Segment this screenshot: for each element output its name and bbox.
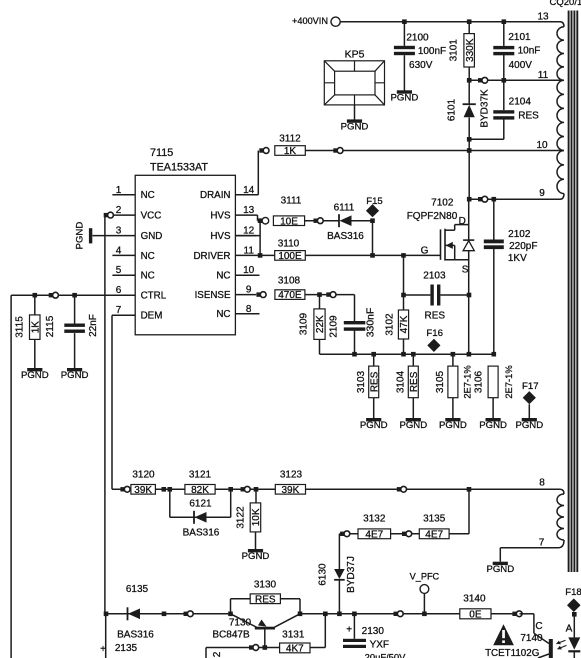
svg-text:RES: RES (369, 371, 380, 392)
svg-text:2115: 2115 (45, 315, 56, 337)
svg-text:3110: 3110 (278, 238, 300, 249)
svg-text:DEM: DEM (141, 311, 163, 322)
svg-text:PGND: PGND (360, 420, 388, 431)
ground PGND under 2100 (397, 90, 412, 93)
svg-text:BC847B: BC847B (212, 630, 250, 641)
svg-text:BYD37K: BYD37K (479, 89, 490, 128)
capacitor 2104 RES (503, 80, 505, 110)
svg-text:100E: 100E (278, 251, 302, 262)
svg-text:3112: 3112 (279, 134, 301, 145)
phototransistor of 7140 (534, 633, 549, 643)
capacitor 2102 220pF 1KV (493, 199, 495, 239)
svg-text:6111: 6111 (334, 202, 355, 213)
optocoupler 7140 TCET1102G (493, 624, 514, 645)
svg-text:22nF: 22nF (88, 314, 99, 337)
svg-text:PGND: PGND (242, 551, 270, 562)
svg-text:2: 2 (212, 651, 223, 657)
body diode of 7102 (463, 239, 474, 241)
capacitor 2103 RES gate-source (401, 293, 406, 298)
svg-text:6130: 6130 (318, 563, 329, 586)
transformer core (568, 11, 570, 573)
svg-text:RES: RES (425, 310, 446, 321)
svg-text:CTRL: CTRL (141, 291, 167, 302)
svg-text:3122: 3122 (235, 506, 246, 529)
capacitor 2101 10nF 400V (503, 22, 505, 46)
svg-text:D: D (459, 216, 466, 227)
svg-text:2103: 2103 (423, 270, 446, 281)
svg-text:V_PFC: V_PFC (410, 571, 440, 581)
ground PGND 3115 (27, 368, 42, 371)
ground PGND pin 7 (493, 562, 508, 565)
svg-text:10E: 10E (280, 216, 298, 227)
svg-text:3105: 3105 (435, 370, 446, 393)
ground PGND 3122 (248, 549, 263, 552)
svg-text:PGND: PGND (61, 370, 89, 381)
svg-text:C: C (535, 621, 542, 632)
ground PGND pin3 rotated (93, 235, 136, 237)
wire 1K to pin10 line (305, 150, 469, 152)
wire bottom V_PFC row (106, 613, 231, 615)
svg-text:3101: 3101 (449, 39, 460, 62)
svg-text:2104: 2104 (509, 97, 532, 108)
svg-text:39K: 39K (282, 485, 300, 496)
svg-text:PGND: PGND (399, 420, 427, 431)
ground PGND 3105 (445, 418, 460, 421)
wire +400V rail (340, 21, 556, 23)
svg-text:YXF: YXF (370, 640, 389, 651)
capacitor 2130 YXF electrolytic (352, 612, 357, 617)
resistor 3101 330K (468, 22, 470, 34)
svg-text:RES: RES (518, 111, 539, 122)
svg-text:VCC: VCC (141, 211, 162, 222)
svg-text:1K: 1K (284, 146, 297, 157)
svg-text:8: 8 (539, 478, 545, 489)
svg-text:3130: 3130 (254, 579, 277, 590)
wire to pin 8 (306, 488, 470, 490)
capacitor 2100 100nF 630V (403, 22, 405, 46)
wire left column (10, 295, 12, 658)
wire pin14 DRAIN to 3112 (235, 194, 258, 196)
svg-text:1KV: 1KV (508, 253, 527, 264)
wire pin7 DEM (112, 314, 135, 316)
svg-text:2E7-1%: 2E7-1% (461, 365, 472, 398)
diode 6130 BYD37J (338, 534, 340, 569)
svg-text:NC: NC (141, 190, 155, 201)
svg-text:630V: 630V (409, 60, 433, 71)
svg-text:FQPF2N80: FQPF2N80 (407, 211, 458, 222)
svg-text:PGND: PGND (74, 222, 85, 250)
svg-text:F17: F17 (522, 381, 539, 392)
svg-text:G: G (421, 245, 429, 256)
svg-text:DRAIN: DRAIN (200, 190, 230, 201)
svg-text:3109: 3109 (299, 312, 310, 335)
svg-text:470E: 470E (278, 290, 302, 301)
svg-text:3111: 3111 (281, 195, 302, 206)
svg-text:2101: 2101 (508, 32, 531, 43)
svg-text:RES: RES (255, 594, 276, 605)
svg-text:PGND: PGND (479, 420, 507, 431)
svg-text:3103: 3103 (356, 370, 367, 393)
svg-text:A: A (566, 624, 573, 635)
ground PGND 3103 (366, 418, 381, 421)
svg-text:2102: 2102 (508, 229, 531, 240)
ground PGND under KP5 (347, 119, 362, 122)
LED of 7140 (573, 612, 575, 637)
svg-text:1K: 1K (30, 321, 41, 334)
svg-text:ISENSE: ISENSE (195, 290, 231, 301)
svg-text:3120: 3120 (132, 470, 155, 481)
wire pin13 HVS jog (235, 214, 257, 216)
wire 10E to diode (305, 220, 339, 222)
svg-text:330K: 330K (465, 38, 476, 62)
svg-text:TCET1102G: TCET1102G (485, 648, 539, 658)
svg-text:2135: 2135 (115, 643, 138, 654)
svg-text:RES: RES (409, 371, 420, 392)
wire demag row (112, 488, 132, 490)
ground PGND 3104 (406, 418, 421, 421)
svg-text:3140: 3140 (463, 594, 486, 605)
wire gate drive (305, 254, 440, 256)
wire pin6 CTRL (11, 294, 135, 296)
svg-text:HVS: HVS (210, 211, 231, 222)
svg-text:3115: 3115 (15, 316, 26, 338)
svg-text:BAS316: BAS316 (117, 630, 154, 641)
wire base row (206, 647, 280, 649)
svg-text:3121: 3121 (189, 470, 212, 481)
svg-text:82K: 82K (191, 485, 209, 496)
wire drain node row (467, 197, 472, 202)
svg-text:11: 11 (538, 70, 549, 81)
svg-text:3108: 3108 (278, 275, 301, 286)
svg-text:NC: NC (141, 271, 155, 282)
svg-text:6101: 6101 (446, 98, 457, 121)
svg-text:3132: 3132 (363, 513, 386, 524)
svg-text:7140: 7140 (520, 633, 543, 644)
wire down to 2109 (354, 295, 356, 321)
svg-text:2E7-1%: 2E7-1% (503, 365, 514, 398)
svg-text:10nF: 10nF (518, 46, 541, 57)
svg-text:GND: GND (141, 231, 163, 242)
svg-text:PGND: PGND (515, 420, 543, 431)
svg-text:+: + (346, 624, 352, 635)
svg-text:7115: 7115 (150, 147, 173, 159)
svg-text:+400VIN: +400VIN (292, 16, 328, 26)
wire to optocoupler collector (520, 613, 534, 615)
svg-text:3104: 3104 (396, 370, 407, 393)
svg-text:3135: 3135 (423, 513, 446, 524)
svg-text:39K: 39K (134, 485, 152, 496)
svg-text:7: 7 (539, 538, 545, 549)
svg-text:PGND: PGND (21, 370, 49, 381)
node HVS junction vertical (258, 218, 263, 223)
svg-text:NC: NC (141, 251, 155, 262)
svg-text:9: 9 (539, 188, 545, 199)
svg-text:PGND: PGND (439, 420, 467, 431)
svg-text:4K7: 4K7 (286, 644, 304, 655)
wire pin9 ISENSE (235, 294, 256, 296)
svg-text:F16: F16 (426, 328, 443, 339)
wire pin12 HVS stub (235, 235, 256, 237)
wire pin7 to ground (499, 548, 501, 562)
svg-text:13: 13 (537, 11, 549, 22)
svg-text:330nF: 330nF (366, 308, 377, 337)
ground PGND 2115 (67, 368, 82, 371)
wire 4E7 row (339, 533, 469, 535)
svg-text:TEA1533AT: TEA1533AT (150, 162, 208, 174)
wire VCC column down (104, 215, 106, 614)
diode 6101 BYD37K (468, 80, 470, 104)
svg-text:S: S (462, 265, 469, 276)
svg-text:4E7: 4E7 (365, 529, 383, 540)
svg-text:2130: 2130 (362, 626, 385, 637)
svg-text:BAS316: BAS316 (183, 527, 220, 538)
svg-text:0E: 0E (469, 609, 482, 620)
svg-text:22K: 22K (315, 315, 326, 333)
light arrows (557, 640, 566, 644)
svg-text:400V: 400V (509, 60, 533, 71)
svg-text:PGND: PGND (341, 122, 369, 133)
svg-text:3123: 3123 (280, 470, 303, 481)
svg-text:6121: 6121 (189, 498, 212, 509)
wire 2104 bottom to drain column (469, 138, 504, 140)
ground PGND F17 (522, 418, 537, 421)
svg-text:KP5: KP5 (345, 49, 365, 61)
svg-text:NC: NC (216, 309, 230, 320)
svg-text:100nF: 100nF (418, 46, 446, 57)
wire source column (468, 295, 470, 354)
node V_PFC (394, 612, 398, 616)
svg-text:HVS: HVS (210, 231, 231, 242)
svg-text:3131: 3131 (282, 629, 305, 640)
svg-text:7102: 7102 (431, 198, 454, 209)
wire HV node row to pin 11 (467, 78, 472, 83)
svg-text:6135: 6135 (126, 584, 149, 595)
svg-text:10K: 10K (251, 508, 262, 526)
svg-text:2100: 2100 (406, 32, 429, 43)
svg-text:10: 10 (536, 140, 548, 151)
svg-text:20uF/50V: 20uF/50V (365, 651, 406, 658)
svg-text:220pF: 220pF (509, 241, 537, 252)
svg-text:4E7: 4E7 (425, 529, 443, 540)
wire drain-source column (468, 199, 470, 295)
svg-text:+: + (100, 644, 106, 655)
wire source/sense rail (320, 353, 494, 355)
svg-text:47K: 47K (399, 315, 410, 333)
wire F15 to gate line (372, 221, 374, 256)
svg-text:BYD37J: BYD37J (346, 556, 357, 593)
ground PGND 3106 (486, 418, 501, 421)
svg-text:BAS316: BAS316 (327, 231, 364, 242)
diode 6121 BAS316 bypass (169, 489, 171, 517)
svg-text:F15: F15 (366, 196, 383, 207)
svg-text:CQ20/1: CQ20/1 (550, 0, 581, 8)
svg-text:PGND: PGND (391, 93, 419, 104)
svg-text:2109: 2109 (328, 315, 339, 338)
wire pin2 VCC (106, 214, 135, 216)
wire down to 4E7 row (468, 489, 470, 534)
svg-text:PGND: PGND (486, 564, 514, 575)
wire base (264, 630, 266, 648)
svg-text:NC: NC (216, 271, 230, 282)
svg-text:DRIVER: DRIVER (193, 251, 230, 262)
svg-text:3102: 3102 (385, 313, 396, 336)
capacitor 2135 electrolytic (105, 614, 107, 658)
svg-text:F18: F18 (565, 587, 581, 598)
svg-text:3106: 3106 (473, 370, 484, 393)
